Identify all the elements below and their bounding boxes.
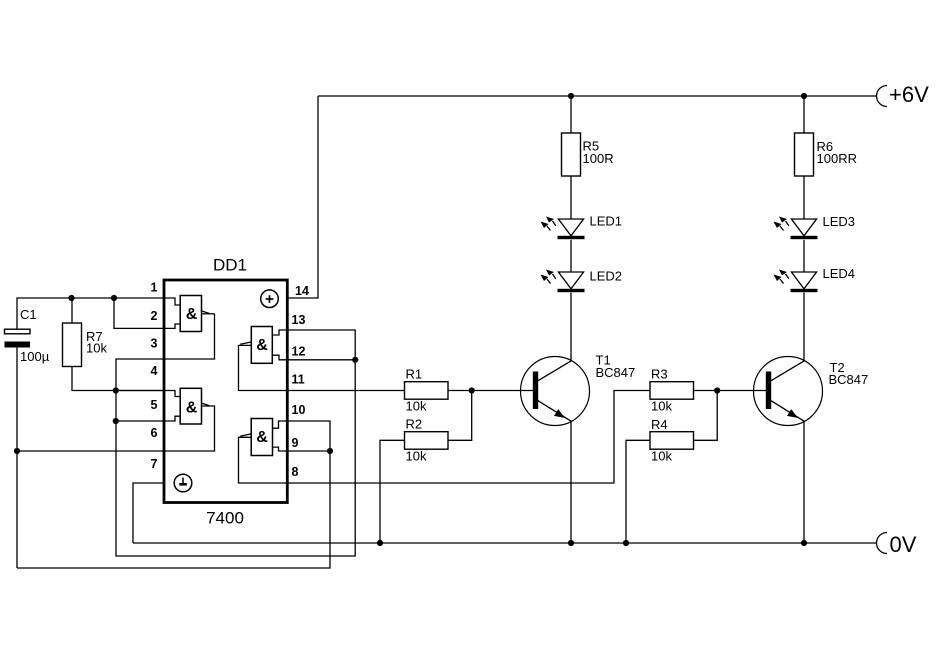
node pin 1 2 bbox=[111, 295, 117, 301]
gate DD1.2 bbox=[164, 388, 215, 451]
gate DD1.3 bbox=[239, 327, 288, 391]
resistor R6 bbox=[795, 96, 857, 219]
pin 8 bbox=[292, 465, 299, 479]
resistor R2 bbox=[405, 417, 449, 464]
terminal +6V bbox=[877, 82, 930, 107]
LED LED3 bbox=[774, 214, 856, 239]
svg-text:100RR: 100RR bbox=[817, 151, 857, 166]
wire pin 2 link bbox=[114, 298, 180, 328]
svg-text:4: 4 bbox=[151, 364, 158, 378]
wire R4 right to base node bbox=[694, 391, 718, 441]
transistor T2 bbox=[754, 357, 869, 426]
node T1 emitter 0V bbox=[568, 540, 574, 546]
node rail R5 bbox=[568, 93, 574, 99]
svg-text:2: 2 bbox=[151, 309, 158, 323]
resistor R4 bbox=[650, 417, 694, 464]
wire rail to pin 14 bbox=[287, 96, 318, 298]
svg-text:&: & bbox=[186, 306, 198, 323]
wire R2 right to base node bbox=[448, 391, 472, 441]
svg-text:10k: 10k bbox=[651, 449, 672, 464]
terminal 0V bbox=[877, 532, 917, 557]
wire R4 left to 0V bbox=[626, 440, 650, 543]
node T2 emitter 0V bbox=[801, 540, 807, 546]
wire pin 7 to 0V bbox=[133, 483, 164, 543]
pin 12 bbox=[292, 345, 306, 359]
pin 11 bbox=[292, 373, 305, 387]
svg-text:LED2: LED2 bbox=[590, 269, 623, 284]
svg-text:&: & bbox=[256, 337, 268, 354]
pin 9 bbox=[292, 436, 299, 450]
LED LED4 bbox=[774, 266, 856, 292]
wire R3 to T2 base bbox=[694, 390, 767, 392]
svg-text:10k: 10k bbox=[86, 340, 107, 355]
node R2 0V bbox=[377, 540, 383, 546]
wire T1 emitter to 0V bbox=[570, 421, 572, 543]
pin 5 bbox=[151, 398, 158, 412]
node C1 pin 6 bbox=[14, 448, 20, 454]
wire +6V rail bbox=[318, 95, 876, 97]
svg-text:BC847: BC847 bbox=[596, 365, 636, 380]
LED LED1 bbox=[541, 214, 623, 240]
svg-text:LED4: LED4 bbox=[823, 266, 856, 281]
pin 1 bbox=[151, 281, 158, 295]
wire pin 12 stub bbox=[272, 355, 355, 360]
wire pin 5 stub bbox=[116, 416, 180, 421]
wire bottom net pins 9 10 bbox=[17, 421, 330, 568]
wire 0V rail bbox=[133, 542, 876, 544]
power symbol plus bbox=[261, 290, 279, 308]
node T2 base bbox=[714, 387, 720, 393]
wire R1 to T1 base bbox=[448, 390, 533, 392]
svg-text:5: 5 bbox=[151, 398, 158, 412]
resistor R1 bbox=[405, 367, 449, 414]
wire LED4 to T2 collector bbox=[803, 293, 805, 362]
pin 13 bbox=[292, 313, 306, 327]
LED LED2 bbox=[541, 269, 623, 293]
IC DD1 body bbox=[164, 256, 287, 528]
svg-text:0V: 0V bbox=[890, 532, 917, 557]
svg-text:14: 14 bbox=[295, 284, 309, 298]
svg-text:10k: 10k bbox=[406, 449, 427, 464]
pin 2 bbox=[151, 309, 158, 323]
wire pin 3 to bottom bbox=[116, 314, 355, 556]
gate DD1.4 bbox=[239, 419, 288, 484]
svg-text:10k: 10k bbox=[651, 399, 672, 414]
node pin 9 10 bbox=[327, 448, 333, 454]
pin 3 bbox=[151, 337, 158, 351]
svg-text:100R: 100R bbox=[583, 151, 614, 166]
wire C1 bottom bbox=[16, 348, 18, 569]
pin 4 bbox=[151, 364, 158, 378]
node pin 4 bbox=[113, 387, 119, 393]
node T1 base bbox=[469, 387, 475, 393]
ground symbol bbox=[174, 474, 192, 492]
node pin 12 13 bbox=[352, 357, 358, 363]
transistor T1 bbox=[521, 353, 636, 426]
svg-text:3: 3 bbox=[151, 337, 158, 351]
svg-text:R3: R3 bbox=[651, 367, 668, 382]
wire pin 1 net bbox=[17, 298, 180, 329]
wire T2 emitter to 0V bbox=[803, 421, 805, 543]
node pin 5 bbox=[113, 418, 119, 424]
svg-text:100µ: 100µ bbox=[20, 349, 50, 364]
svg-text:7: 7 bbox=[151, 457, 158, 471]
wire pin 9 stub bbox=[273, 447, 331, 451]
gate DD1.1 bbox=[180, 296, 214, 332]
svg-text:11: 11 bbox=[292, 373, 305, 387]
wire LED1 to LED2 bbox=[570, 240, 572, 272]
capacitor C1 bbox=[5, 307, 50, 364]
svg-text:R1: R1 bbox=[406, 367, 423, 382]
svg-text:6: 6 bbox=[151, 426, 158, 440]
svg-text:R4: R4 bbox=[651, 417, 668, 432]
node R4 0V bbox=[623, 540, 629, 546]
svg-text:&: & bbox=[186, 399, 198, 416]
svg-text:LED1: LED1 bbox=[590, 214, 623, 229]
svg-text:7400: 7400 bbox=[206, 509, 244, 528]
svg-text:13: 13 bbox=[292, 313, 306, 327]
resistor R3 bbox=[650, 367, 694, 414]
wire R2 left to 0V bbox=[380, 440, 405, 543]
pin 14 bbox=[295, 284, 309, 298]
wire pin 11 to R1 bbox=[287, 390, 405, 392]
svg-text:BC847: BC847 bbox=[829, 372, 869, 387]
svg-text:LED3: LED3 bbox=[823, 214, 856, 229]
svg-text:R2: R2 bbox=[406, 417, 423, 432]
svg-text:C1: C1 bbox=[20, 307, 37, 322]
svg-text:8: 8 bbox=[292, 465, 299, 479]
svg-text:+6V: +6V bbox=[889, 82, 929, 107]
resistor R7 bbox=[63, 298, 165, 391]
svg-text:10k: 10k bbox=[406, 399, 427, 414]
node rail R6 bbox=[801, 93, 807, 99]
pin 7 bbox=[151, 457, 158, 471]
resistor R5 bbox=[562, 96, 614, 219]
svg-text:&: & bbox=[256, 429, 268, 446]
wire pin 6 stub bbox=[17, 450, 164, 452]
wire pin 8 to R3 bbox=[287, 391, 650, 484]
wire LED3 to LED4 bbox=[803, 240, 805, 272]
wire pin 4 stub bbox=[116, 391, 180, 397]
wire LED2 to T1 collector bbox=[570, 293, 572, 362]
node R7 top bbox=[68, 295, 74, 301]
pin 10 bbox=[292, 403, 306, 417]
svg-text:10: 10 bbox=[292, 403, 306, 417]
svg-text:12: 12 bbox=[292, 345, 306, 359]
svg-text:9: 9 bbox=[292, 436, 299, 450]
svg-text:1: 1 bbox=[151, 281, 158, 295]
svg-text:DD1: DD1 bbox=[213, 256, 247, 275]
pin 6 bbox=[151, 426, 158, 440]
